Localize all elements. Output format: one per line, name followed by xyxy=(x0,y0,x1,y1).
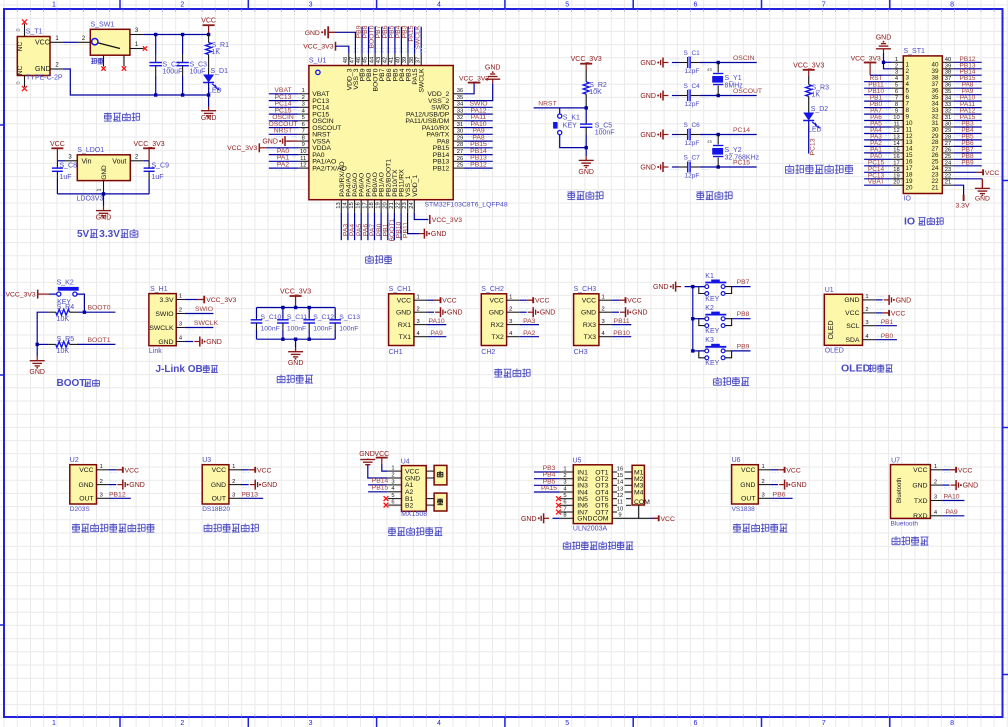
svg-text:5: 5 xyxy=(563,493,566,499)
wire xyxy=(672,166,679,168)
svg-text:VCC: VCC xyxy=(845,310,859,317)
svg-text:B2: B2 xyxy=(405,502,414,509)
pin 10 PA0 of U1 xyxy=(299,154,309,156)
label 四相五线步进电机 xyxy=(566,541,568,543)
svg-text:S_C6: S_C6 xyxy=(684,122,701,129)
wire xyxy=(394,27,396,54)
wire xyxy=(700,134,757,136)
svg-text:1: 1 xyxy=(302,88,305,94)
wire xyxy=(864,165,891,167)
wire xyxy=(954,152,982,154)
svg-text:S_Y1: S_Y1 xyxy=(725,75,742,82)
svg-text:GND: GND xyxy=(129,482,145,489)
pin 1 of S_SW1 no-connect xyxy=(130,48,144,50)
pin 21 of S_ST1 xyxy=(942,184,953,186)
svg-text:3: 3 xyxy=(309,720,313,727)
pin 44 BOOT0 of U1 (top) xyxy=(374,54,376,66)
wire key to BOOT0 row xyxy=(77,294,84,312)
svg-text:15: 15 xyxy=(893,147,899,153)
svg-text:100nF: 100nF xyxy=(261,326,280,333)
wire R4 left to vertical rail xyxy=(37,312,48,344)
svg-text:1: 1 xyxy=(232,464,235,470)
junction xyxy=(281,306,284,309)
svg-text:J-Link OB: J-Link OB xyxy=(156,364,203,375)
svg-text:VCC: VCC xyxy=(661,516,675,523)
svg-text:KEY: KEY xyxy=(705,328,719,335)
svg-text:GND: GND xyxy=(581,310,596,317)
wire xyxy=(427,324,446,326)
wire to key K1 xyxy=(559,108,561,114)
label 串口电路 xyxy=(494,369,502,371)
ground xyxy=(36,357,38,361)
push button S_K1 KEY xyxy=(558,114,562,118)
svg-text:RX3: RX3 xyxy=(583,322,596,329)
svg-text:PB10: PB10 xyxy=(613,330,630,337)
wire key to bottom rail xyxy=(560,135,587,148)
wire pin2 to ground xyxy=(368,465,388,478)
wire pin4 RXD xyxy=(942,515,964,517)
svg-text:Bluetooth: Bluetooth xyxy=(897,478,903,503)
junction xyxy=(717,133,720,136)
svg-text:ULN2003A: ULN2003A xyxy=(573,526,608,533)
svg-text:VCC: VCC xyxy=(891,310,905,317)
svg-text:3: 3 xyxy=(895,70,898,76)
svg-text:SWCLK: SWCLK xyxy=(149,325,174,332)
power flag VCC xyxy=(778,469,785,471)
svg-text:PB15: PB15 xyxy=(372,484,389,491)
svg-text:46: 46 xyxy=(356,57,362,63)
svg-text:K2: K2 xyxy=(705,305,714,312)
resistor S_R2 10K xyxy=(585,70,587,82)
svg-text:S_C4: S_C4 xyxy=(684,83,701,90)
svg-text:SWCLK: SWCLK xyxy=(415,25,422,50)
ground xyxy=(951,484,957,486)
svg-text:S_K2: S_K2 xyxy=(57,279,74,286)
svg-text:VCC: VCC xyxy=(786,467,800,474)
wire xyxy=(954,87,982,89)
svg-text:VCC_3V3: VCC_3V3 xyxy=(280,289,311,296)
svg-text:29: 29 xyxy=(945,128,951,134)
resistor S_R4 10K xyxy=(48,311,55,313)
svg-text:6: 6 xyxy=(391,500,394,506)
svg-text:SWIO: SWIO xyxy=(155,311,173,318)
svg-text:GND: GND xyxy=(96,215,112,222)
pin 35 VSS_2 of U1 xyxy=(453,100,463,102)
pin 32 of S_ST1 xyxy=(942,113,953,115)
svg-text:28: 28 xyxy=(945,134,951,140)
svg-text:GND: GND xyxy=(78,482,93,489)
wire key left to bus xyxy=(693,318,705,320)
pin 19 PB1/AO of U1 (bottom) xyxy=(380,200,382,213)
svg-text:1K: 1K xyxy=(812,91,821,98)
display module U1 OLED xyxy=(824,294,862,345)
pin 1 GND of S_LDO1 xyxy=(103,181,105,194)
pin 2 of S_ST1 xyxy=(891,68,903,70)
svg-text:NRST: NRST xyxy=(538,100,557,107)
label module name xyxy=(733,524,741,526)
svg-text:28: 28 xyxy=(457,142,463,148)
wire key right / net PB9 xyxy=(732,350,751,352)
pin 43 PB7 of U1 (top) xyxy=(381,54,383,66)
capacitor S_C10 100nF xyxy=(256,308,258,319)
wire xyxy=(269,167,299,169)
motor connector (top) xyxy=(434,465,447,485)
svg-text:K3: K3 xyxy=(705,337,714,344)
svg-text:20: 20 xyxy=(893,180,899,186)
svg-text:4: 4 xyxy=(437,720,441,727)
resistor S_R3 1K xyxy=(808,76,810,85)
pin 37 of S_ST1 xyxy=(942,81,953,83)
svg-text:12pF: 12pF xyxy=(685,101,700,108)
svg-text:8: 8 xyxy=(950,720,954,727)
svg-text:M4: M4 xyxy=(634,489,644,496)
svg-text:3: 3 xyxy=(865,320,868,326)
svg-text:VCC: VCC xyxy=(582,298,596,305)
svg-text:GND: GND xyxy=(211,482,226,489)
svg-text:10: 10 xyxy=(300,149,306,155)
svg-text:3.3V: 3.3V xyxy=(160,297,174,304)
svg-text:24: 24 xyxy=(409,202,415,209)
no-connect pin5 xyxy=(384,496,389,501)
svg-text:16: 16 xyxy=(893,154,899,160)
svg-text:VCC_3V3: VCC_3V3 xyxy=(303,43,333,50)
svg-text:U3: U3 xyxy=(202,457,211,464)
pin 2 GND of S_T1 xyxy=(50,68,63,70)
ground xyxy=(103,206,105,210)
resistor S_R5 10K xyxy=(48,343,55,345)
LED S_D1 xyxy=(208,64,210,75)
svg-text:BOOT1: BOOT1 xyxy=(87,337,110,344)
pin 34 SWIO of U1 xyxy=(453,106,463,108)
wire pin2 SWIO xyxy=(185,313,214,315)
svg-text:3: 3 xyxy=(179,322,182,328)
svg-text:29: 29 xyxy=(457,136,463,142)
wire pin2 to ground xyxy=(612,311,619,313)
svg-text:Vout: Vout xyxy=(112,158,126,165)
svg-text:GND: GND xyxy=(653,284,669,291)
wire pin3 OUT xyxy=(770,497,792,499)
svg-text:17: 17 xyxy=(893,160,899,166)
wire xyxy=(361,27,363,54)
junction xyxy=(36,343,39,346)
svg-text:S_C5: S_C5 xyxy=(595,122,613,129)
switch S_SW1 xyxy=(90,29,130,55)
svg-text:U6: U6 xyxy=(732,457,741,464)
pin 28 of S_ST1 xyxy=(942,139,953,141)
svg-text:S_C1: S_C1 xyxy=(684,50,701,57)
pin 4 of S_ST1 xyxy=(891,81,903,83)
svg-text:GND: GND xyxy=(876,35,892,42)
svg-text:GND: GND xyxy=(896,297,912,304)
ground xyxy=(585,156,587,160)
svg-text:OUT: OUT xyxy=(212,496,226,503)
svg-text:2: 2 xyxy=(895,63,898,69)
wire pin1 to VCC xyxy=(427,299,434,301)
svg-text:39: 39 xyxy=(945,63,951,69)
svg-text:8MHz: 8MHz xyxy=(725,83,744,90)
label 开关 (switch) xyxy=(91,58,93,60)
power flag VCC (stepper) xyxy=(652,517,659,519)
pin header S_ST1 40-pin xyxy=(903,56,942,194)
svg-text:10K: 10K xyxy=(589,89,602,96)
pin 30 PA9/TX of U1 xyxy=(453,133,463,135)
svg-text:27: 27 xyxy=(945,141,951,147)
pin 36 VDD_2 wire to VCC_3V3 xyxy=(463,83,474,94)
svg-text:30: 30 xyxy=(945,122,951,128)
svg-text:GND: GND xyxy=(912,482,927,489)
svg-text:21: 21 xyxy=(945,180,951,186)
svg-text:S_C7: S_C7 xyxy=(684,154,701,161)
label 直流电机电路 xyxy=(388,527,396,529)
svg-text:2: 2 xyxy=(391,472,394,478)
svg-text:S_C8: S_C8 xyxy=(60,162,78,169)
junction xyxy=(585,146,588,149)
ground xyxy=(884,299,890,301)
wire xyxy=(520,324,539,326)
pin 12 PA2/TX/AO of U1 xyxy=(299,167,309,169)
svg-text:3.3V: 3.3V xyxy=(99,229,120,240)
svg-text:D203S: D203S xyxy=(70,506,91,513)
svg-text:TX2: TX2 xyxy=(491,334,504,341)
wire xyxy=(269,106,299,108)
svg-text:S_R5: S_R5 xyxy=(57,336,75,343)
svg-text:S_R4: S_R4 xyxy=(57,304,75,311)
pin 24 of S_ST1 xyxy=(942,165,953,167)
wire ground to pins 1,2 xyxy=(884,53,892,69)
svg-text:LDO3V3: LDO3V3 xyxy=(77,196,104,203)
wire xyxy=(463,167,492,169)
svg-text:2: 2 xyxy=(180,2,184,9)
svg-text:COM: COM xyxy=(634,499,650,506)
svg-text:SCL: SCL xyxy=(846,323,859,330)
wire xyxy=(864,139,891,141)
pin 20 of S_ST1 xyxy=(891,184,903,186)
svg-text:VS1838: VS1838 xyxy=(732,506,756,513)
svg-text:GND: GND xyxy=(447,310,463,317)
svg-text:1: 1 xyxy=(895,57,898,63)
pin 45 PB8 of U1 (top) xyxy=(368,54,370,66)
svg-text:S_D2: S_D2 xyxy=(811,106,829,113)
pin 25 PB12 of U1 xyxy=(453,167,463,169)
svg-text:100nF: 100nF xyxy=(287,326,306,333)
svg-text:IO: IO xyxy=(904,216,915,228)
pin 0 bottom of S_T1 with no-connect X xyxy=(24,76,26,88)
capacitor S_C3 10uF xyxy=(182,35,184,55)
wire GND to pin 47 xyxy=(336,32,356,54)
svg-text:VCC_3V3: VCC_3V3 xyxy=(206,297,236,304)
svg-text:33: 33 xyxy=(457,109,463,115)
svg-text:VCC: VCC xyxy=(627,298,641,305)
svg-text:PB12: PB12 xyxy=(433,165,450,172)
svg-text:5V: 5V xyxy=(77,229,90,240)
svg-text:16: 16 xyxy=(356,202,362,208)
pin 38 of S_ST1 xyxy=(942,74,953,76)
svg-text:RX1: RX1 xyxy=(398,322,411,329)
svg-text:GND: GND xyxy=(489,310,504,317)
capacitor S_C5 100nF xyxy=(585,108,587,123)
pin 29 PA8 of U1 xyxy=(453,140,463,142)
svg-text:10uF: 10uF xyxy=(190,69,206,76)
svg-text:1: 1 xyxy=(52,2,56,9)
pin 1 of S_ST1 xyxy=(891,61,903,63)
svg-text:NRST: NRST xyxy=(274,128,293,135)
svg-text:VCC: VCC xyxy=(397,298,411,305)
svg-text:6: 6 xyxy=(694,720,698,727)
svg-text:3: 3 xyxy=(761,493,764,499)
pin 33 of S_ST1 xyxy=(942,107,953,109)
svg-text:100nF: 100nF xyxy=(339,326,358,333)
pin 31 PA10/RX of U1 xyxy=(453,127,463,129)
wire xyxy=(463,147,492,149)
wire xyxy=(534,484,560,486)
svg-text:3: 3 xyxy=(232,493,235,499)
ground xyxy=(117,484,123,486)
pin 36 VDD_2 of U1 xyxy=(453,93,463,95)
wire xyxy=(954,94,982,96)
pin 34 of S_ST1 xyxy=(942,100,953,102)
wire xyxy=(463,120,492,122)
svg-text:TYPE-C-2P: TYPE-C-2P xyxy=(26,75,63,82)
svg-text:2: 2 xyxy=(100,479,103,485)
svg-text:3: 3 xyxy=(509,319,512,325)
junction xyxy=(691,317,694,320)
pin 9 VDDA of U1 xyxy=(299,147,309,149)
power flag VCC xyxy=(249,469,256,471)
power flag VCC xyxy=(527,299,534,301)
wire xyxy=(700,95,757,97)
wire xyxy=(864,100,891,102)
pin 39 PB3 of U1 (top) xyxy=(407,54,409,66)
svg-text:14: 14 xyxy=(893,141,900,147)
pin 5 of S_ST1 xyxy=(891,87,903,89)
pin 36 of S_ST1 xyxy=(942,87,953,89)
svg-text:42: 42 xyxy=(383,57,389,63)
wire xyxy=(864,81,891,83)
power flag VCC xyxy=(116,469,123,471)
wire LED cathode to GND xyxy=(208,83,210,107)
svg-text:SWCLK: SWCLK xyxy=(194,320,219,327)
svg-text:IO: IO xyxy=(904,196,912,203)
svg-text:GND: GND xyxy=(975,196,990,203)
label 主芯片 xyxy=(368,255,370,257)
svg-text:PB7: PB7 xyxy=(737,279,750,286)
pin 4 PC15 of U1 xyxy=(299,113,309,115)
crystal S_Y1 8MHz xyxy=(717,63,719,73)
wire pin1 to ground xyxy=(876,299,883,301)
wire xyxy=(864,94,891,96)
wire xyxy=(672,134,679,136)
pin 9 of S_ST1 xyxy=(891,113,903,115)
svg-text:3.3V: 3.3V xyxy=(956,203,970,210)
ground xyxy=(250,484,256,486)
wire R5 left to rail xyxy=(37,343,48,345)
svg-text:S_D1: S_D1 xyxy=(211,68,229,75)
pin 30 of S_ST1 xyxy=(942,126,953,128)
pin 7 of S_ST1 xyxy=(891,100,903,102)
svg-text:38: 38 xyxy=(409,57,415,63)
svg-text:34: 34 xyxy=(945,96,952,102)
wire xyxy=(374,27,376,54)
connector S_H1 (J-Link OB) xyxy=(149,294,176,346)
label 按键电路 xyxy=(716,377,718,379)
svg-text:40: 40 xyxy=(396,57,402,63)
pin 5 OSCIN of U1 xyxy=(299,120,309,122)
svg-text:OLED: OLED xyxy=(825,348,844,355)
svg-text:26: 26 xyxy=(945,147,951,153)
svg-text:47: 47 xyxy=(350,57,356,63)
pin 3 of S_LDO1 xyxy=(65,160,78,162)
svg-text:GND: GND xyxy=(640,60,656,67)
pin 48 VDD_3 of U1 (top) xyxy=(348,54,350,66)
wire xyxy=(340,213,342,240)
wire xyxy=(534,478,560,480)
wire pin1 to VCC xyxy=(770,469,778,471)
wire xyxy=(954,133,982,135)
wire xyxy=(520,336,539,338)
svg-text:7: 7 xyxy=(822,2,826,9)
wire xyxy=(672,95,679,97)
wire xyxy=(427,336,446,338)
capacitor S_C11 100nF xyxy=(282,308,284,319)
svg-text:VCC: VCC xyxy=(741,467,755,474)
svg-text:8: 8 xyxy=(895,102,898,108)
svg-text:VCC: VCC xyxy=(958,467,972,474)
svg-text:34: 34 xyxy=(457,102,464,108)
wire xyxy=(368,27,370,54)
wire VCC_3V3 to pin 3 xyxy=(870,74,891,76)
wire xyxy=(534,491,560,493)
wire pin1 to VCC xyxy=(612,299,619,301)
pin 46 PB9 of U1 (top) xyxy=(361,54,363,66)
svg-text:SWIO: SWIO xyxy=(195,306,213,313)
svg-text:10: 10 xyxy=(893,115,899,121)
svg-text:S_H1: S_H1 xyxy=(150,286,168,293)
power flag VCC xyxy=(434,299,441,301)
svg-text:9: 9 xyxy=(302,142,305,148)
svg-text:1: 1 xyxy=(934,464,937,470)
svg-text:VCC: VCC xyxy=(489,298,503,305)
svg-text:1: 1 xyxy=(52,720,56,727)
svg-text:37: 37 xyxy=(415,57,421,63)
svg-text:GND: GND xyxy=(640,165,656,172)
svg-text:GND: GND xyxy=(963,483,979,490)
svg-text:5: 5 xyxy=(565,720,569,727)
svg-text:GND: GND xyxy=(396,310,411,317)
pin 40 PB4 of U1 (top) xyxy=(400,54,402,66)
wire xyxy=(612,336,631,338)
junction xyxy=(207,93,210,96)
svg-text:DS18B20: DS18B20 xyxy=(202,506,230,513)
svg-text:5: 5 xyxy=(565,2,569,9)
svg-text:KEY: KEY xyxy=(563,122,577,129)
wire xyxy=(864,184,891,186)
svg-text:8: 8 xyxy=(563,513,566,519)
svg-text:12: 12 xyxy=(617,493,623,499)
pin 29 of S_ST1 xyxy=(942,133,953,135)
svg-text:SWCLK: SWCLK xyxy=(419,68,426,93)
power flag 3.3V xyxy=(963,195,965,202)
wire xyxy=(864,158,891,160)
svg-text:VCC_3V3: VCC_3V3 xyxy=(227,145,257,152)
wire xyxy=(954,158,982,160)
svg-text:PA2: PA2 xyxy=(523,330,536,337)
power flag VCC xyxy=(619,299,626,301)
svg-text:21: 21 xyxy=(389,202,395,208)
wire pin2 to ground xyxy=(942,484,949,486)
power flag VCC xyxy=(883,312,890,314)
svg-text:39: 39 xyxy=(402,57,408,63)
svg-text:VCC_3V3: VCC_3V3 xyxy=(134,141,165,148)
